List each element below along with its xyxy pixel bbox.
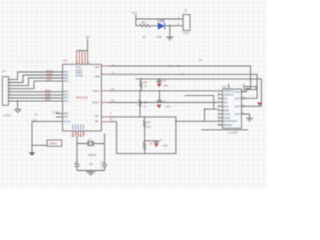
svg-text:OUT2: OUT2 [235,96,242,100]
svg-text:16MHz: 16MHz [88,153,97,157]
svg-text:OUT4: OUT4 [235,112,242,116]
svg-text:+INOUT1: +INOUT1 [223,89,235,93]
svg-text:R?: R? [142,21,146,25]
svg-text:100n: 100n [246,88,252,90]
svg-text:GND1: GND1 [223,112,231,116]
svg-text:OUT3: OUT3 [235,104,242,108]
svg-text:IN4: IN4 [223,100,228,104]
svg-text:RC/RANGE: RC/RANGE [223,119,237,123]
svg-text:EPC2LN: EPC2LN [76,96,88,100]
svg-text:PD3: PD3 [64,100,69,103]
svg-text:PA: PA [95,115,98,118]
svg-text:C?: C? [163,79,167,83]
svg-text:1/2: 1/2 [33,119,37,122]
svg-text:LDB: LDB [95,75,100,78]
svg-text:IC?: IC? [223,85,228,89]
svg-text:4k7: 4k7 [147,126,152,129]
svg-text:R?: R? [149,142,153,146]
svg-text:C?: C? [159,138,163,142]
svg-text:J?: J? [2,70,6,74]
svg-text:50p: 50p [89,163,94,166]
svg-text:X?: X? [35,112,39,116]
svg-text:GND: GND [183,31,189,35]
svg-text:LED: LED [157,35,162,39]
svg-text:C?: C? [74,160,78,164]
svg-text:Vs+: Vs+ [177,64,182,68]
svg-text:-INOUT2: -INOUT2 [223,93,234,97]
svg-text:IC?: IC? [63,58,68,62]
svg-text:xxxL298: xxxL298 [227,130,238,134]
svg-text:RST: RST [47,78,53,82]
svg-text:PB: PB [95,121,99,124]
svg-text:VCC: VCC [132,11,138,15]
svg-text:INT1: INT1 [45,98,51,102]
svg-text:J?: J? [184,9,188,13]
svg-text:MOSI: MOSI [93,90,100,93]
svg-text:PC6: PC6 [64,80,69,83]
svg-text:ENA: ENA [223,105,229,109]
svg-text:IN3: IN3 [223,97,228,101]
svg-text:C?: C? [242,83,246,87]
svg-text:100n: 100n [165,106,171,109]
svg-text:16MHz: 16MHz [49,142,58,146]
svg-text:R?: R? [144,80,148,84]
svg-text:A?: A? [199,58,203,62]
svg-text:Y?: Y? [88,137,92,141]
svg-text:C?: C? [101,160,105,164]
svg-text:OUT1: OUT1 [235,90,242,94]
svg-text:100n: 100n [162,144,168,147]
svg-text:CLK0: CLK0 [53,110,60,114]
svg-text:CLKO: CLKO [64,120,71,123]
svg-text:AGND: AGND [76,74,83,77]
svg-text:D?: D? [158,19,162,23]
svg-text:R?: R? [144,100,148,104]
svg-text:100n: 100n [163,84,169,87]
svg-text:MISO: MISO [93,102,99,105]
svg-text:Vs-: Vs- [181,72,185,76]
svg-text:R?: R? [147,120,151,124]
svg-text:LDA: LDA [95,66,100,69]
svg-text:SENSA: SENSA [223,123,232,127]
svg-text:PB7: PB7 [64,116,69,119]
svg-text:CON8: CON8 [3,114,11,118]
svg-text:+5V: +5V [85,35,90,39]
svg-text:C?: C? [162,100,166,104]
svg-text:ENB: ENB [223,108,229,112]
